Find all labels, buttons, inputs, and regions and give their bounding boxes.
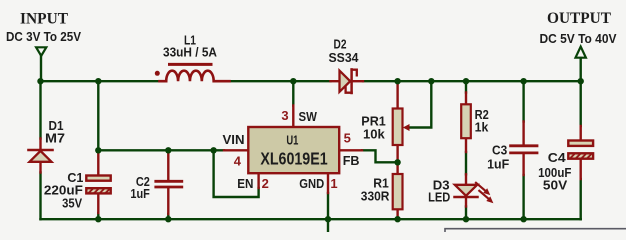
svg-text:DC 3V To 25V: DC 3V To 25V [6, 29, 81, 44]
svg-text:FB: FB [343, 153, 360, 168]
svg-text:GND: GND [299, 176, 324, 191]
svg-text:U1: U1 [286, 134, 298, 148]
svg-text:XL6019E1: XL6019E1 [260, 148, 327, 168]
svg-text:SW: SW [299, 109, 318, 124]
svg-text:LED: LED [428, 189, 450, 204]
svg-text:C4: C4 [548, 150, 567, 165]
svg-text:2: 2 [262, 176, 269, 191]
svg-text:1uF: 1uF [487, 156, 509, 171]
svg-text:OUTPUT: OUTPUT [547, 10, 612, 27]
svg-text:33uH / 5A: 33uH / 5A [163, 45, 218, 60]
svg-text:4: 4 [234, 153, 242, 168]
svg-text:SS34: SS34 [329, 50, 360, 65]
svg-text:INPUT: INPUT [20, 11, 69, 28]
svg-text:EN: EN [237, 176, 253, 191]
svg-text:35V: 35V [62, 196, 82, 211]
svg-text:VIN: VIN [223, 132, 245, 147]
svg-text:1k: 1k [475, 119, 489, 134]
svg-text:1: 1 [330, 176, 337, 191]
svg-text:C3: C3 [492, 143, 507, 158]
svg-text:DC 5V To 40V: DC 5V To 40V [540, 31, 617, 46]
svg-text:1uF: 1uF [130, 186, 150, 201]
svg-text:3: 3 [281, 108, 288, 123]
svg-text:5: 5 [344, 131, 351, 146]
svg-text:330R: 330R [361, 188, 390, 203]
svg-text:M7: M7 [45, 131, 65, 146]
svg-text:50V: 50V [543, 178, 568, 193]
svg-text:10k: 10k [363, 127, 386, 142]
